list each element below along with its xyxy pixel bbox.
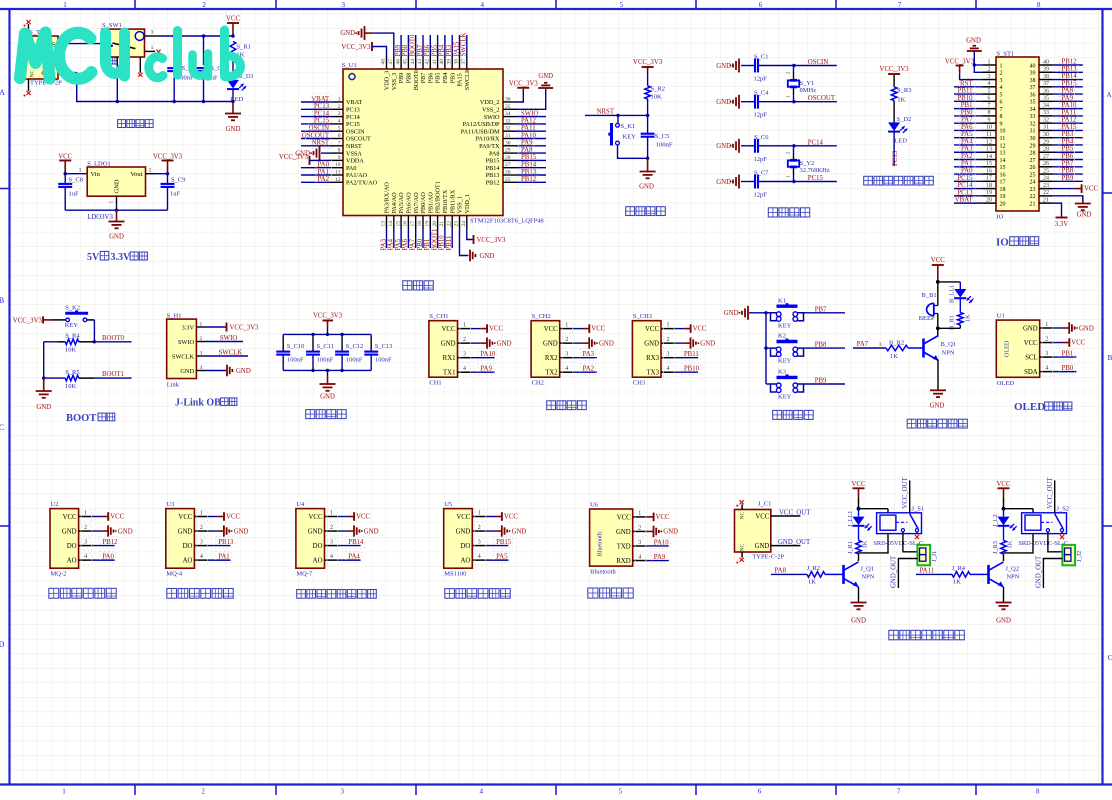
svg-text:PA11/USB/DM: PA11/USB/DM <box>461 128 500 135</box>
svg-text:1: 1 <box>565 323 568 329</box>
power GND at U6 <box>647 530 653 532</box>
svg-text:OSCOUT: OSCOUT <box>302 132 330 139</box>
svg-text:RX1: RX1 <box>443 355 456 362</box>
svg-text:S_R4: S_R4 <box>65 333 80 340</box>
connector J_J2 green box <box>1062 545 1075 565</box>
svg-text:1K: 1K <box>861 540 868 548</box>
svg-text:J_Q1: J_Q1 <box>860 566 874 573</box>
svg-text:1: 1 <box>84 511 87 517</box>
svg-text:AO: AO <box>313 558 323 565</box>
logo MCUclub <box>20 33 50 79</box>
svg-text:BOOT0: BOOT0 <box>410 34 417 57</box>
svg-text:K3: K3 <box>778 369 786 376</box>
svg-text:PA7: PA7 <box>857 341 869 348</box>
svg-text:10K: 10K <box>651 94 663 101</box>
svg-text:3.3V: 3.3V <box>1055 221 1068 228</box>
wire coil bottom to transistor node J_S1 <box>859 534 889 553</box>
svg-text:PB1: PB1 <box>961 102 973 109</box>
key K1 <box>766 312 771 314</box>
svg-text:1K: 1K <box>808 579 816 586</box>
ground GND filter <box>327 370 329 376</box>
svg-text:J_J2: J_J2 <box>1076 551 1083 562</box>
svg-text:24: 24 <box>1043 176 1049 182</box>
svg-text:PB8: PB8 <box>815 342 827 349</box>
svg-text:7: 7 <box>338 140 341 146</box>
svg-text:PB7: PB7 <box>815 306 827 313</box>
ground rail ldo <box>65 209 167 211</box>
svg-text:13: 13 <box>381 221 387 227</box>
svg-text:38: 38 <box>1043 74 1049 80</box>
wires bottom of U1 with vertical net labels <box>386 229 388 249</box>
svg-text:1: 1 <box>200 511 203 517</box>
power GND at U5 <box>486 530 495 532</box>
svg-text:PA1: PA1 <box>218 554 229 561</box>
svg-text:2: 2 <box>149 168 152 174</box>
svg-text:PB15: PB15 <box>486 158 500 165</box>
svg-text:2: 2 <box>84 525 87 531</box>
svg-text:PA9: PA9 <box>1062 95 1074 102</box>
svg-text:CH3: CH3 <box>633 380 645 387</box>
svg-text:PB12: PB12 <box>1062 59 1078 66</box>
svg-text:PB13: PB13 <box>486 172 500 179</box>
ground GND J_Q1 <box>851 602 867 604</box>
svg-text:8: 8 <box>988 110 991 116</box>
svg-text:PB13: PB13 <box>1062 66 1078 73</box>
svg-text:38: 38 <box>454 59 460 65</box>
svg-text:PA6/AO: PA6/AO <box>406 192 413 214</box>
wire D2 with vertical net PC13 <box>893 132 895 166</box>
svg-text:Link: Link <box>167 382 180 389</box>
svg-text:39: 39 <box>446 59 452 65</box>
svg-text:PB13: PB13 <box>521 169 537 176</box>
resistor B_R2 with net PA7 <box>853 347 886 349</box>
svg-text:U1: U1 <box>997 313 1005 320</box>
transistor B_Q1 NPN <box>922 339 925 358</box>
svg-text:SDA: SDA <box>1024 369 1038 376</box>
caption 一氧化碳检测模块 <box>297 590 306 599</box>
svg-text:PC15: PC15 <box>346 121 360 128</box>
net GND_OUT wire J_J1 <box>898 559 917 589</box>
LED B_LL1 <box>959 282 961 289</box>
svg-text:OLED: OLED <box>1003 340 1010 357</box>
svg-text:PA10: PA10 <box>1062 102 1077 109</box>
power VCC at S_CH1 <box>472 328 481 330</box>
svg-text:4: 4 <box>667 366 670 372</box>
svg-text:PB14: PB14 <box>1062 73 1078 80</box>
svg-text:4: 4 <box>565 366 568 372</box>
svg-text:S_C8: S_C8 <box>69 177 83 184</box>
svg-text:32: 32 <box>1043 117 1049 123</box>
svg-text:S_C7: S_C7 <box>754 170 769 177</box>
svg-text:32.768KHz: 32.768KHz <box>800 167 830 174</box>
key S_K1 <box>617 115 619 123</box>
svg-text:GND: GND <box>700 340 715 347</box>
svg-text:12: 12 <box>986 139 992 145</box>
svg-text:NC: NC <box>740 512 746 520</box>
S_SW1 pin 3 <box>145 35 161 37</box>
svg-text:PA11: PA11 <box>521 125 536 132</box>
svg-text:30: 30 <box>1043 132 1049 138</box>
svg-text:1K: 1K <box>1006 540 1013 548</box>
svg-text:PB5: PB5 <box>435 73 442 84</box>
caption 甲醛检测模块 <box>445 589 455 599</box>
svg-text:20: 20 <box>1000 201 1006 207</box>
net PA5 wire at U5 <box>486 559 508 561</box>
svg-text:4: 4 <box>478 554 481 560</box>
svg-text:PC13: PC13 <box>346 107 360 114</box>
svg-text:VCC: VCC <box>617 514 631 521</box>
svg-text:VSS_3: VSS_3 <box>391 73 398 91</box>
svg-text:PA9: PA9 <box>654 554 666 561</box>
svg-text:PB4: PB4 <box>442 73 449 84</box>
caption 蓝牙模块 <box>588 588 598 598</box>
net PB0 wire at U1 <box>1054 371 1077 373</box>
net PA10 wire at U6 <box>647 545 669 547</box>
svg-text:B_B1: B_B1 <box>922 292 937 299</box>
svg-text:U2: U2 <box>51 501 59 508</box>
svg-text:U5: U5 <box>444 501 452 508</box>
svg-text:K2: K2 <box>778 333 786 340</box>
svg-text:SWIO: SWIO <box>484 114 500 121</box>
svg-text:J_C1: J_C1 <box>758 500 771 507</box>
svg-text:TX1: TX1 <box>443 370 455 377</box>
svg-text:PB8: PB8 <box>1062 168 1074 175</box>
svg-text:PA9/TX: PA9/TX <box>479 143 500 150</box>
relay J_S1 box <box>877 513 922 534</box>
svg-text:PA15: PA15 <box>457 73 464 87</box>
svg-text:NC: NC <box>740 544 746 552</box>
svg-text:VCC: VCC <box>58 153 72 160</box>
svg-text:6: 6 <box>758 788 762 796</box>
relay J_S1 contact no-connect <box>916 532 918 534</box>
svg-text:PC13: PC13 <box>314 103 330 110</box>
capacitor S_C1 <box>173 36 175 65</box>
svg-text:CH1: CH1 <box>429 380 441 387</box>
svg-text:VCC_3V3: VCC_3V3 <box>279 154 309 161</box>
svg-text:B_R2: B_R2 <box>889 340 904 347</box>
power VCC at U3 <box>209 516 218 518</box>
svg-text:S_LDO1: S_LDO1 <box>87 161 110 168</box>
net label NRST with wire <box>585 114 648 116</box>
power GND at U1 VSS_2 <box>517 88 546 109</box>
svg-text:GND: GND <box>663 529 678 536</box>
svg-text:25: 25 <box>1043 168 1049 174</box>
svg-text:OLED: OLED <box>1014 401 1045 413</box>
svg-text:10: 10 <box>1000 129 1006 135</box>
svg-text:37: 37 <box>1043 81 1049 87</box>
connector S_CH2 box <box>531 321 560 378</box>
svg-text:23: 23 <box>454 221 460 227</box>
svg-text:PA7: PA7 <box>961 117 973 124</box>
svg-text:VCC_OUT: VCC_OUT <box>1047 477 1054 509</box>
svg-text:1: 1 <box>463 323 466 329</box>
svg-text:44: 44 <box>410 59 416 65</box>
svg-text:10K: 10K <box>65 383 77 390</box>
svg-text:6: 6 <box>759 1 763 9</box>
svg-text:3: 3 <box>879 342 882 348</box>
svg-text:PA5: PA5 <box>496 554 508 561</box>
svg-text:2: 2 <box>667 337 670 343</box>
svg-text:PA0: PA0 <box>318 162 330 169</box>
svg-text:NRST: NRST <box>597 109 615 116</box>
svg-text:36: 36 <box>1030 92 1036 98</box>
svg-text:PA12/USB/DP: PA12/USB/DP <box>463 121 500 128</box>
transistor J_Q2 NPN <box>987 565 990 584</box>
svg-text:PA0: PA0 <box>102 554 114 561</box>
caption 主芯片 <box>403 281 412 290</box>
svg-text:40: 40 <box>439 59 445 65</box>
svg-text:BOOT1: BOOT1 <box>102 371 124 378</box>
wire VCC split alarm <box>938 281 961 283</box>
svg-text:VCC: VCC <box>1071 340 1085 347</box>
svg-text:PA12: PA12 <box>1062 117 1077 124</box>
connector S_CH1 box <box>429 321 458 378</box>
svg-text:34: 34 <box>505 111 511 117</box>
svg-text:PB14: PB14 <box>486 165 500 172</box>
net GND_OUT wire <box>771 545 801 547</box>
power VCC at S_CH3 <box>675 328 684 330</box>
svg-text:PA5/AO: PA5/AO <box>398 192 405 214</box>
svg-text:PB8: PB8 <box>406 73 413 84</box>
svg-text:31: 31 <box>1043 125 1049 131</box>
svg-text:19: 19 <box>425 221 431 227</box>
svg-text:VCC: VCC <box>1084 186 1098 193</box>
svg-text:VSS_1: VSS_1 <box>457 196 464 214</box>
svg-text:33: 33 <box>1030 114 1036 120</box>
svg-text:3: 3 <box>463 352 466 358</box>
svg-text:PB10: PB10 <box>684 366 700 373</box>
net SWCLK wire <box>205 355 248 357</box>
svg-text:OSCIN: OSCIN <box>346 128 365 135</box>
svg-text:9: 9 <box>1000 121 1003 127</box>
power GND at U2 <box>93 530 102 532</box>
svg-text:TXD: TXD <box>617 543 631 550</box>
wire LDO GND to rail <box>116 205 118 210</box>
svg-text:2: 2 <box>988 67 991 73</box>
svg-text:PB9: PB9 <box>815 378 827 385</box>
svg-text:VDD_3: VDD_3 <box>384 71 391 91</box>
svg-text:S_C4: S_C4 <box>754 90 769 97</box>
svg-text:12pF: 12pF <box>754 156 768 163</box>
ground GND ldo <box>116 210 118 221</box>
svg-text:2: 2 <box>565 337 568 343</box>
svg-text:VCC: VCC <box>442 326 456 333</box>
svg-text:PA10: PA10 <box>480 351 495 358</box>
svg-text:C: C <box>0 423 4 432</box>
svg-text:4: 4 <box>1045 366 1048 372</box>
svg-text:S_C5: S_C5 <box>655 133 669 140</box>
svg-text:PB1: PB1 <box>1062 350 1074 357</box>
svg-text:1uF: 1uF <box>69 191 80 198</box>
power VCC at S_CH2 <box>574 328 583 330</box>
svg-text:GND_OUT: GND_OUT <box>891 555 898 588</box>
svg-text:12: 12 <box>1000 143 1006 149</box>
capacitor S_C13 filter <box>370 334 372 337</box>
svg-text:PB12: PB12 <box>486 180 500 187</box>
power GND at U1 VSS_1 <box>460 229 469 256</box>
svg-text:PB0/AO: PB0/AO <box>420 192 427 214</box>
svg-text:35: 35 <box>505 104 511 110</box>
svg-text:GND: GND <box>308 528 323 535</box>
svg-text:22: 22 <box>446 221 452 227</box>
svg-text:J_R1: J_R1 <box>847 541 854 554</box>
svg-text:J_R3: J_R3 <box>992 541 999 554</box>
svg-text:3: 3 <box>200 540 203 546</box>
svg-text:S_R5: S_R5 <box>65 369 79 376</box>
svg-text:SRD-05VDC-SL-C: SRD-05VDC-SL-C <box>1018 540 1068 547</box>
svg-text:17: 17 <box>410 221 416 227</box>
svg-text:PC14: PC14 <box>808 139 824 146</box>
svg-text:8: 8 <box>1000 114 1003 120</box>
svg-text:TX2: TX2 <box>545 370 558 377</box>
svg-text:GND: GND <box>456 528 471 535</box>
connector U2 box <box>50 509 79 569</box>
net PA3 wire at S_CH2 <box>574 357 597 359</box>
svg-text:VCC: VCC <box>356 514 370 521</box>
power GND at U3 <box>209 530 218 532</box>
svg-text:33: 33 <box>505 118 511 124</box>
svg-text:DO: DO <box>313 543 323 550</box>
svg-text:U4: U4 <box>296 501 305 508</box>
svg-text:VCC: VCC <box>226 16 240 23</box>
svg-text:PA8: PA8 <box>521 147 533 154</box>
svg-text:SWIO: SWIO <box>220 335 237 342</box>
U6 pin stubs and numbers <box>633 516 647 518</box>
svg-text:Bluetooth: Bluetooth <box>597 531 604 556</box>
S_T1 pin 1 <box>58 43 67 45</box>
svg-text:B: B <box>1108 354 1112 362</box>
svg-text:1: 1 <box>638 511 641 517</box>
svg-text:PC13: PC13 <box>957 189 973 196</box>
svg-text:2: 2 <box>338 104 341 110</box>
svg-text:12: 12 <box>335 177 341 183</box>
svg-text:S_CH2: S_CH2 <box>532 313 551 320</box>
svg-text:PB9: PB9 <box>1062 175 1074 182</box>
svg-text:KEY: KEY <box>778 322 792 329</box>
S_H1 pin stubs and numbers <box>196 326 205 328</box>
net PB12 wire at U2 <box>93 545 115 547</box>
net PA0 wire at U2 <box>93 559 115 561</box>
svg-text:PB11: PB11 <box>446 236 453 251</box>
svg-text:PA8: PA8 <box>775 568 787 575</box>
svg-text:PB0: PB0 <box>1062 365 1074 372</box>
svg-text:VCC_3V3: VCC_3V3 <box>341 44 371 51</box>
wire R4 left down <box>43 342 45 378</box>
svg-text:2: 2 <box>638 525 641 531</box>
svg-text:4: 4 <box>1000 85 1003 91</box>
svg-text:100nF: 100nF <box>287 356 304 363</box>
svg-text:RST: RST <box>960 80 973 87</box>
net PB15 wire at U5 <box>486 545 508 547</box>
svg-text:34: 34 <box>1030 107 1036 113</box>
svg-text:Vout: Vout <box>130 171 142 178</box>
S_LDO1 pin 2 <box>146 173 155 175</box>
svg-text:GND: GND <box>109 233 124 240</box>
svg-text:PA4/AO: PA4/AO <box>391 192 398 214</box>
power GND at S_CH1 <box>472 342 481 344</box>
svg-text:NRST: NRST <box>346 143 362 150</box>
U2 pin stubs and numbers <box>79 516 93 518</box>
power VCC at U5 <box>486 516 495 518</box>
svg-text:S_Y2: S_Y2 <box>800 160 815 167</box>
svg-text:21: 21 <box>439 221 445 227</box>
net GND_OUT wire J_J2 <box>1043 559 1062 589</box>
svg-text:GND: GND <box>538 73 553 80</box>
svg-text:GND: GND <box>497 340 512 347</box>
S_U1 pin stubs right <box>503 101 517 103</box>
svg-text:PA0: PA0 <box>346 165 356 172</box>
net PB11 wire at S_CH3 <box>675 357 698 359</box>
U3 pin stubs and numbers <box>194 516 208 518</box>
S_U1 pin stubs top <box>386 56 388 69</box>
svg-text:GND: GND <box>716 143 731 150</box>
ground GND alarm <box>930 389 946 391</box>
svg-text:100nF: 100nF <box>375 356 392 363</box>
wire alarm join to collector <box>959 325 961 328</box>
svg-text:PC15: PC15 <box>957 175 973 182</box>
svg-text:STM32F103C8T6_LQFP48: STM32F103C8T6_LQFP48 <box>470 218 544 225</box>
svg-text:VCC_3V3: VCC_3V3 <box>313 313 343 320</box>
svg-text:GND: GND <box>236 368 251 375</box>
svg-text:27: 27 <box>505 162 511 168</box>
svg-text:PB9: PB9 <box>395 44 402 56</box>
LED J_L2 <box>1003 509 1005 517</box>
LED J_LL1 <box>858 509 860 517</box>
svg-text:PB7: PB7 <box>420 73 427 84</box>
svg-text:2: 2 <box>1000 71 1003 77</box>
svg-text:BOOT0: BOOT0 <box>102 335 125 342</box>
svg-text:PA7/AO: PA7/AO <box>413 192 420 214</box>
wires right of U1 with net labels <box>517 116 547 118</box>
svg-text:S_Y1: S_Y1 <box>800 80 815 87</box>
svg-text:TX3: TX3 <box>647 370 660 377</box>
svg-text:BEEP: BEEP <box>919 315 935 322</box>
svg-text:3: 3 <box>1045 351 1048 357</box>
svg-text:VBAT: VBAT <box>955 197 974 204</box>
svg-text:3: 3 <box>338 111 341 117</box>
svg-text:24: 24 <box>1030 180 1036 186</box>
S_SW1 switch symbol <box>135 32 144 41</box>
svg-text:KEY: KEY <box>778 358 792 365</box>
connector J_J1 green box <box>917 545 930 565</box>
svg-text:RX3: RX3 <box>646 355 659 362</box>
svg-text:VCC_3V3: VCC_3V3 <box>633 59 663 66</box>
regulator S_LDO1 box <box>87 167 145 196</box>
U5 pin stubs and numbers <box>472 516 486 518</box>
mcu S_U1 box <box>343 69 503 216</box>
svg-text:100nF: 100nF <box>346 356 363 363</box>
power VCC_3V3 at H1 pin1 <box>205 326 227 328</box>
wire R1 to LED D1 <box>232 60 234 80</box>
svg-text:S_C12: S_C12 <box>346 343 364 350</box>
svg-text:OSCOUT: OSCOUT <box>346 136 371 143</box>
connector U6 box <box>590 509 633 566</box>
svg-text:1: 1 <box>338 97 341 103</box>
svg-text:1: 1 <box>1045 322 1048 328</box>
svg-text:AO: AO <box>183 558 193 565</box>
wire to R2 <box>647 71 649 86</box>
resistor J_R3 <box>1003 526 1005 541</box>
svg-text:GND: GND <box>543 341 558 348</box>
svg-text:RXD: RXD <box>616 558 630 565</box>
svg-text:3: 3 <box>330 540 333 546</box>
power GND at ST1 pins 1-2 <box>974 64 982 66</box>
svg-text:SWCLK: SWCLK <box>219 350 243 357</box>
svg-text:J_R2: J_R2 <box>807 565 820 572</box>
wire T1 pin1 to SW1 <box>67 43 103 45</box>
svg-text:VCC: VCC <box>544 326 558 333</box>
svg-text:PB0: PB0 <box>961 109 973 116</box>
